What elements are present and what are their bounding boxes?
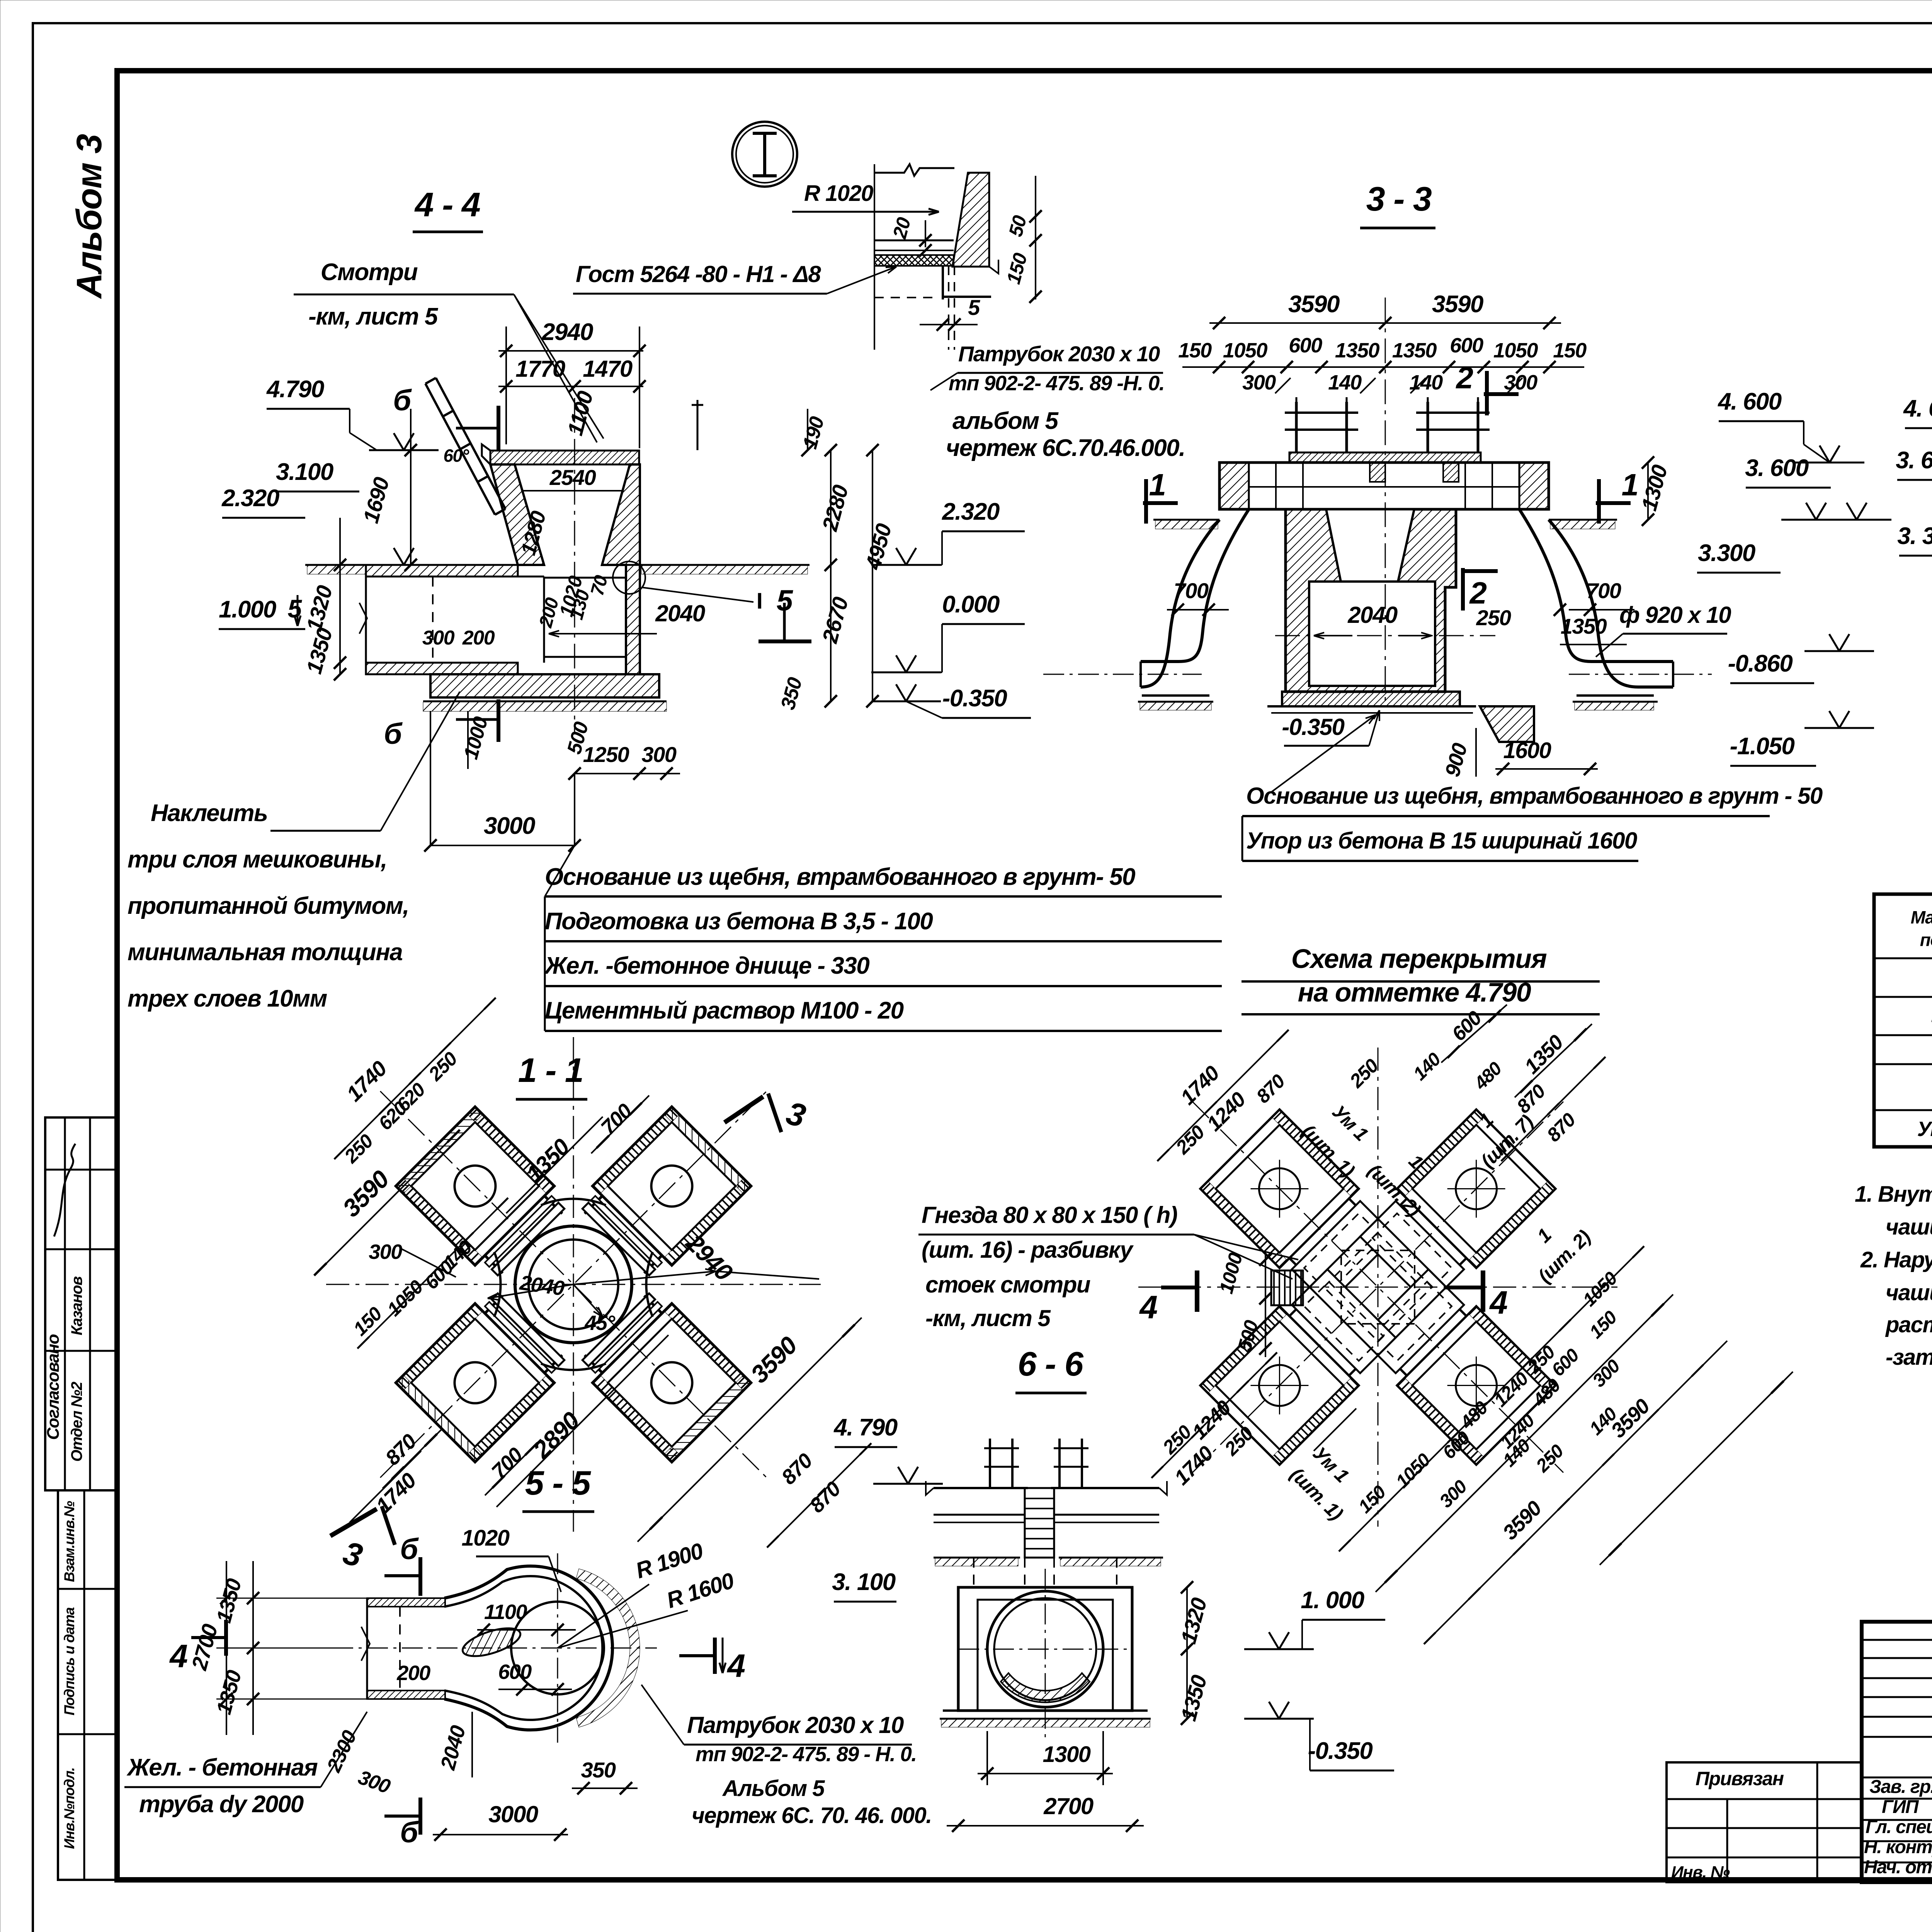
svg-text:Гнезда 80 х 80 х 150 ( h): Гнезда 80 х 80 х 150 ( h)	[922, 1202, 1177, 1228]
section 4-4 bottom dims	[467, 711, 469, 769]
svg-text:6 - 6: 6 - 6	[1018, 1345, 1084, 1383]
svg-text:1470: 1470	[583, 356, 633, 382]
svg-text:2540: 2540	[549, 465, 596, 490]
svg-text:45°: 45°	[584, 1311, 615, 1335]
svg-text:0.000: 0.000	[942, 591, 1000, 618]
section 3-3 left pipe	[1141, 520, 1219, 687]
svg-text:Согласовано: Согласовано	[44, 1334, 63, 1440]
plan 1-1 radius arrows	[488, 1284, 573, 1298]
svg-text:3590: 3590	[1432, 291, 1483, 318]
svg-text:Упор из бетона В 15: Упор из бетона В 15 ширинай 1600	[1246, 828, 1637, 854]
svg-text:Привязан: Привязан	[1696, 1768, 1784, 1789]
svg-text:минимальная толщина: минимальная толщина	[128, 939, 402, 966]
section 4-4 railing post	[697, 400, 699, 450]
svg-text:700: 700	[1587, 578, 1621, 603]
svg-text:3 - 3: 3 - 3	[1366, 180, 1432, 218]
svg-text:тп 902-2- 475. 89 -Н. 0.: тп 902-2- 475. 89 -Н. 0.	[949, 372, 1164, 395]
svg-text:Подготовка из бетона В 3,: Подготовка из бетона В 3,5 - 100	[545, 908, 933, 935]
svg-text:-1.050: -1.050	[1730, 733, 1795, 760]
section 4-4 right dim chains	[830, 450, 832, 701]
svg-text:2: 2	[1469, 576, 1487, 610]
section 3-3 ground lines	[1153, 519, 1219, 521]
svg-text:б: б	[384, 718, 403, 750]
svg-text:3. 600: 3. 600	[1896, 447, 1932, 474]
svg-text:1020: 1020	[461, 1526, 509, 1551]
scheme cross body	[1138, 1048, 1617, 1527]
svg-text:1100: 1100	[484, 1600, 527, 1624]
svg-text:2: 2	[1456, 361, 1473, 395]
6-6 lower box with pipe circle	[958, 1587, 1132, 1711]
section 4-4 top slab	[490, 451, 639, 464]
svg-text:600: 600	[498, 1660, 532, 1684]
svg-text:140: 140	[1328, 371, 1362, 394]
svg-text:2.320: 2.320	[221, 485, 279, 512]
title block (основная надпись)	[1862, 1622, 1932, 1882]
svg-text:60°: 60°	[443, 446, 469, 466]
svg-text:ГИП: ГИП	[1882, 1797, 1919, 1817]
section 4-4 funnel walls	[490, 464, 544, 565]
svg-text:1350: 1350	[1335, 339, 1380, 362]
section 4-4 inner box	[544, 578, 626, 657]
svg-text:2. Наружные поверхности: 2. Наружные поверхности стен распределит…	[1860, 1247, 1932, 1272]
svg-text:Отдел №2: Отдел №2	[68, 1382, 85, 1462]
svg-text:2.320: 2.320	[942, 498, 1000, 525]
scheme lower-left dim chain	[1157, 1358, 1271, 1472]
svg-text:Наклеить: Наклеить	[151, 800, 267, 827]
svg-text:150: 150	[1178, 339, 1212, 362]
svg-text:1350: 1350	[1392, 339, 1437, 362]
svg-text:3. 300: 3. 300	[1897, 523, 1932, 549]
svg-text:-0.860: -0.860	[1728, 650, 1793, 677]
svg-text:2700: 2700	[1043, 1793, 1094, 1819]
svg-text:350: 350	[581, 1758, 616, 1782]
svg-text:на отметке 4.790: на отметке 4.790	[1298, 977, 1531, 1007]
svg-text:трех слоев 10мм: трех слоев 10мм	[128, 985, 327, 1012]
section 3-3 left pipe flange	[1142, 694, 1209, 697]
svg-text:3. 100: 3. 100	[832, 1569, 895, 1595]
left inventory table (Инв.№подл / Подпись и дата / Взам.инв.№)	[58, 1490, 116, 1880]
svg-text:300: 300	[369, 1240, 402, 1264]
svg-text:1: 1	[1622, 468, 1638, 502]
svg-text:1. 000: 1. 000	[1301, 1587, 1364, 1614]
plan 1-1 dim chain lower left	[363, 1204, 502, 1343]
svg-text:3. 600: 3. 600	[1745, 455, 1808, 481]
svg-text:200: 200	[396, 1662, 430, 1685]
svg-text:чертеж 6С.70.46.000.: чертеж 6С.70.46.000.	[946, 435, 1185, 461]
svg-text:Инв. №: Инв. №	[1671, 1863, 1730, 1882]
svg-text:4.790: 4.790	[266, 376, 324, 403]
svg-text:700: 700	[1174, 578, 1209, 603]
section 4-4 ground lines	[305, 564, 366, 566]
svg-text:4. 600: 4. 600	[1903, 395, 1932, 422]
svg-text:4: 4	[169, 1638, 187, 1674]
svg-text:Нач. отд.: Нач. отд.	[1864, 1857, 1932, 1878]
svg-text:-км, лист 5: -км, лист 5	[925, 1305, 1051, 1331]
svg-text:Взам.инв.№: Взам.инв.№	[61, 1501, 77, 1582]
svg-text:Ум1: Ум1	[1917, 1117, 1932, 1141]
svg-text:140: 140	[1409, 371, 1443, 394]
svg-text:R 1020: R 1020	[804, 181, 873, 206]
svg-text:4 - 4: 4 - 4	[414, 185, 480, 224]
svg-text:Альбом 3: Альбом 3	[70, 134, 109, 299]
svg-text:3000: 3000	[488, 1801, 538, 1827]
svg-text:600: 600	[1450, 334, 1483, 357]
svg-text:3.100: 3.100	[276, 459, 333, 485]
section 4-4 bottom slab	[430, 674, 659, 697]
svg-text:1.000: 1.000	[219, 596, 276, 623]
scheme lower-right dim chains	[1345, 1252, 1638, 1546]
section 3-3 bottom slab	[1282, 692, 1460, 706]
section 3-3 top slab	[1289, 452, 1481, 463]
svg-text:три слоя мешковины,: три слоя мешковины,	[128, 846, 387, 873]
svg-text:250: 250	[1476, 605, 1511, 630]
section 4-4 left dim chain	[410, 409, 412, 565]
section 3-3 thrust block (упор)	[1480, 706, 1534, 742]
svg-text:Гост 5264 -80 - Н1 - Δ8: Гост 5264 -80 - Н1 - Δ8	[576, 261, 821, 287]
svg-text:-затираются раствором т: -затираются раствором того же состава.	[1886, 1345, 1932, 1370]
svg-text:-0.350: -0.350	[1282, 714, 1344, 740]
svg-text:4: 4	[726, 1648, 745, 1684]
svg-text:300: 300	[642, 742, 677, 767]
svg-text:-0.350: -0.350	[942, 685, 1007, 712]
6-6 ground line	[934, 1557, 1020, 1559]
left approval table (Согласовано / Отдел №2 / Казанов)	[45, 1117, 116, 1490]
specification table	[1874, 894, 1932, 1147]
detail I drawing	[874, 164, 875, 350]
svg-text:4: 4	[1139, 1289, 1157, 1325]
detail I callout circle	[732, 122, 797, 187]
svg-text:1050: 1050	[1223, 339, 1268, 362]
6-6 elevation 4.790 flag	[873, 1467, 943, 1484]
svg-text:4. 600: 4. 600	[1717, 388, 1781, 415]
svg-text:альбом 5: альбом 5	[952, 408, 1059, 434]
svg-text:1300: 1300	[1043, 1742, 1090, 1767]
svg-text:Цементный раствор М1: Цементный раствор М100 - 20	[545, 997, 904, 1024]
svg-text:б: б	[400, 1816, 419, 1849]
section 3-3 railings	[1295, 402, 1298, 452]
svg-text:1600: 1600	[1503, 738, 1551, 763]
svg-text:4: 4	[1489, 1284, 1507, 1321]
svg-text:Жел. -бетонное днище: Жел. -бетонное днище - 330	[544, 952, 869, 979]
svg-text:4. 790: 4. 790	[833, 1414, 897, 1441]
plan 1-1 section mark 3	[724, 1097, 763, 1122]
svg-text:1250: 1250	[583, 742, 629, 767]
svg-text:чаши штукатурятся с по: чаши штукатурятся с последующим железнен…	[1886, 1214, 1932, 1240]
svg-text:чертеж 6С. 70. 46. 000.: чертеж 6С. 70. 46. 000.	[692, 1803, 932, 1828]
section 4-4 left pipe	[366, 565, 518, 577]
svg-text:Основание из щебня, втрам: Основание из щебня, втрамбованного в гру…	[1246, 783, 1823, 809]
svg-text:Смотри: Смотри	[321, 259, 418, 286]
section 4-4 ladder	[425, 378, 505, 515]
svg-text:Схема перекрытия: Схема перекрытия	[1291, 944, 1547, 974]
svg-text:Зав. гр.: Зав. гр.	[1869, 1777, 1932, 1797]
svg-text:чаши выше планировки ш: чаши выше планировки штукатурятся цемент…	[1886, 1280, 1932, 1305]
svg-text:Альбом 5: Альбом 5	[722, 1776, 825, 1801]
svg-text:2040: 2040	[655, 600, 705, 626]
5-5 section marks	[330, 1509, 377, 1536]
svg-text:Н. контр.: Н. контр.	[1864, 1837, 1932, 1857]
svg-text:Казанов: Казанов	[68, 1276, 85, 1335]
attachment table left of title block	[1667, 1762, 1862, 1882]
6-6 base plate	[943, 1709, 1148, 1712]
section 3-3 walkway band	[1219, 463, 1549, 509]
section 3-3 inner cavity 2040	[1309, 582, 1435, 686]
svg-text:Гл. спец: Гл. спец	[1866, 1817, 1932, 1837]
svg-text:б: б	[393, 384, 412, 417]
svg-text:200: 200	[462, 627, 495, 649]
section 3-3 right pipe	[1549, 520, 1673, 687]
5-5 gnezdo lens	[459, 1622, 524, 1662]
plan 1-1 dim chain bottom left 870/1740	[383, 1429, 442, 1488]
svg-text:ф 920 х 10: ф 920 х 10	[1619, 602, 1731, 628]
svg-text:1. Внутренние поверхности: 1. Внутренние поверхности стен распредел…	[1855, 1182, 1932, 1207]
6-6 ladder shaft	[1025, 1488, 1054, 1558]
svg-text:б: б	[400, 1533, 419, 1566]
svg-text:2040: 2040	[1347, 602, 1398, 628]
svg-text:(шт. 16) - разбивку: (шт. 16) - разбивку	[922, 1237, 1134, 1263]
section 5-5 keyhole body	[444, 1566, 612, 1730]
svg-text:стоек смотри: стоек смотри	[925, 1272, 1090, 1298]
section 4-4 centerline	[574, 398, 575, 734]
svg-text:Инв.№подл.: Инв.№подл.	[61, 1768, 77, 1849]
svg-text:-км, лист 5: -км, лист 5	[308, 303, 439, 330]
plan 1-1 cross body	[326, 1037, 821, 1532]
svg-text:1: 1	[1149, 468, 1166, 502]
svg-text:2940: 2940	[541, 319, 593, 345]
svg-text:тп 902-2- 475. 89 - Н. 0.: тп 902-2- 475. 89 - Н. 0.	[696, 1743, 917, 1766]
plan 1-1 dim chains upper left	[340, 1003, 490, 1153]
svg-text:1350: 1350	[1561, 614, 1607, 638]
scheme second chain	[1430, 1341, 1727, 1638]
svg-text:Жел. - бетонная: Жел. - бетонная	[126, 1754, 318, 1781]
svg-text:Марка: Марка	[1911, 907, 1932, 927]
scheme upper-left dim chain	[1163, 1036, 1283, 1155]
svg-text:поз.: поз.	[1920, 930, 1932, 950]
5-5 centerlines	[557, 1553, 558, 1743]
svg-text:раствором состава 1:3: раствором состава 1:3 слоем 20мм, ниже п…	[1885, 1312, 1932, 1337]
svg-text:5: 5	[968, 295, 980, 320]
svg-text:5 - 5: 5 - 5	[525, 1464, 591, 1502]
svg-text:Подпись и дата: Подпись и дата	[61, 1607, 77, 1716]
svg-text:I: I	[757, 588, 762, 614]
svg-text:пропитанной битумом,: пропитанной битумом,	[128, 893, 409, 919]
svg-text:-0.350: -0.350	[1308, 1738, 1373, 1764]
svg-text:150: 150	[1553, 339, 1587, 362]
svg-text:1770: 1770	[515, 356, 565, 382]
section 3-3 funnel core (hatched)	[1286, 509, 1456, 692]
svg-text:3.300: 3.300	[1698, 540, 1755, 566]
svg-text:600: 600	[1289, 334, 1322, 357]
section 3-3 centerline	[1385, 298, 1386, 707]
svg-text:3000: 3000	[484, 813, 535, 839]
6-6 top slab with railing	[989, 1439, 991, 1488]
svg-text:1050: 1050	[1493, 339, 1538, 362]
svg-text:Патрубок 2030 х 10: Патрубок 2030 х 10	[958, 342, 1160, 366]
svg-text:Основание из щебня, втрамбо: Основание из щебня, втрамбованного в гру…	[545, 864, 1135, 890]
svg-text:Патрубок 2030 х 10: Патрубок 2030 х 10	[687, 1712, 904, 1738]
svg-text:300: 300	[1242, 371, 1276, 394]
svg-text:труба dy 2000: труба dy 2000	[139, 1791, 304, 1818]
svg-text:300: 300	[422, 627, 455, 649]
svg-text:3590: 3590	[1288, 291, 1340, 318]
section 4-4 detail circle callout on drawing	[613, 561, 645, 594]
